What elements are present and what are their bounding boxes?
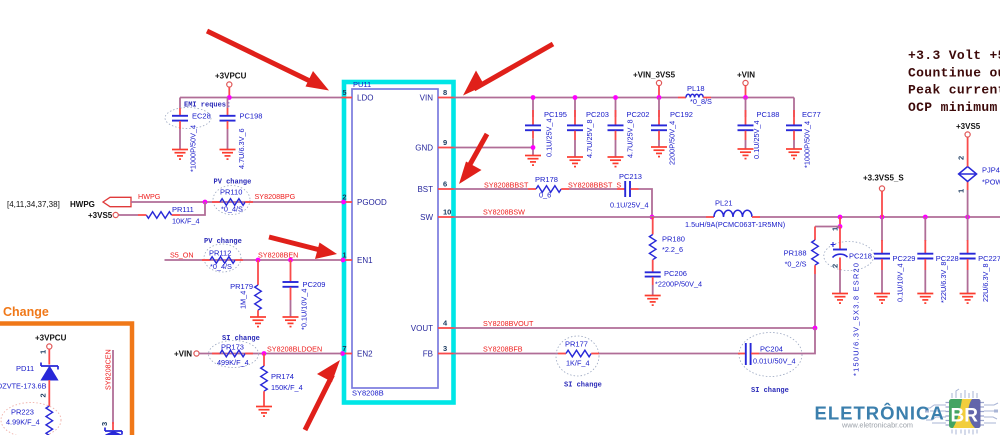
svg-text:2: 2 <box>957 156 966 160</box>
SECTION: texts <box>908 48 1000 115</box>
pin 7 EN2 stub <box>342 353 353 355</box>
capacitor PC229 <box>874 217 890 294</box>
svg-text:PC188: PC188 <box>757 110 780 119</box>
node PC202 bus junction <box>613 95 618 100</box>
node PC188 bus junction <box>743 95 748 100</box>
pin 10 SW stub <box>438 216 454 218</box>
svg-text:SY8208BFB: SY8208BFB <box>483 345 523 354</box>
svg-text:4.7U/25V_8: 4.7U/25V_8 <box>626 119 635 158</box>
capacitor PC209 <box>283 260 299 317</box>
svg-text:*1000P/50V_4: *1000P/50V_4 <box>803 121 812 168</box>
pin 2 PGOOD stub <box>342 201 353 203</box>
ground under PC188 <box>738 149 754 159</box>
wire EC28 riser <box>179 98 181 109</box>
SECTION: topcaps <box>454 71 821 169</box>
SECTION: arrows <box>207 31 553 430</box>
ground under PC218 <box>832 294 848 304</box>
resistor PR112 <box>202 257 243 264</box>
capacitor PC203 <box>567 98 583 158</box>
svg-text:10: 10 <box>443 208 451 217</box>
svg-text:www.eletronicabr.com: www.eletronicabr.com <box>841 421 913 430</box>
svg-text:3: 3 <box>100 422 109 426</box>
svg-text:*2.2_6: *2.2_6 <box>662 245 683 254</box>
annotation arrow 5 to pin 7 <box>305 360 340 430</box>
svg-text:PR173: PR173 <box>221 343 244 352</box>
svg-text:EN1: EN1 <box>357 256 373 265</box>
change ellipse around PR223 <box>1 403 61 435</box>
svg-text:1: 1 <box>831 227 840 231</box>
inductor PL18 <box>678 94 711 97</box>
svg-text:1: 1 <box>39 350 48 354</box>
svg-text:FB: FB <box>423 350 433 359</box>
power +3VS5 circle <box>113 212 118 217</box>
annotation arrow 3 to pin 6 <box>459 134 487 184</box>
svg-text:*2200P/50V_4: *2200P/50V_4 <box>655 280 702 289</box>
svg-text:0_6: 0_6 <box>539 191 551 200</box>
svg-text:PR178: PR178 <box>535 175 558 184</box>
svg-text:4.99K/F_4: 4.99K/F_4 <box>6 418 40 427</box>
pin 9 GND stub <box>438 147 454 149</box>
power +3.3VS5_S lead <box>881 191 883 217</box>
capacitor PC204 (series) <box>738 343 759 365</box>
svg-text:*150U/6.3V_5X3.8 ESR20: *150U/6.3V_5X3.8 ESR20 <box>852 263 861 376</box>
svg-text:SY8208BLDOEN: SY8208BLDOEN <box>267 345 322 354</box>
svg-text:PR112: PR112 <box>209 249 231 258</box>
svg-text:*0.1U/10V_4: *0.1U/10V_4 <box>300 289 309 330</box>
wire PJP4 riser <box>967 190 969 217</box>
capacitor EC28 <box>172 108 188 150</box>
svg-text:PC209: PC209 <box>303 280 326 289</box>
node output bus junction 1 <box>838 215 843 220</box>
ground under EC77 <box>786 149 802 159</box>
svg-text:EMI request: EMI request <box>184 102 230 110</box>
capacitor PC228 <box>917 217 933 294</box>
svg-text:6: 6 <box>443 180 447 189</box>
svg-text:LDO: LDO <box>357 94 373 103</box>
svg-text:SI change: SI change <box>564 382 602 390</box>
svg-text:0.1U/10V_4: 0.1U/10V_4 <box>896 263 905 302</box>
svg-text:PR177: PR177 <box>565 340 588 349</box>
node output bus junction 3 <box>923 215 928 220</box>
svg-text:BR: BR <box>951 406 979 427</box>
wire PC198 riser <box>227 98 229 109</box>
svg-text:PR110: PR110 <box>220 188 242 197</box>
svg-text:PR223: PR223 <box>11 408 34 417</box>
svg-text:+3VPCU: +3VPCU <box>35 334 67 343</box>
svg-text:SY8208B: SY8208B <box>352 389 384 398</box>
svg-text:PC227: PC227 <box>978 254 1000 263</box>
highlight box (cyan) around PU11 <box>344 82 454 403</box>
ground under PC198 <box>220 150 236 160</box>
svg-text:PL21: PL21 <box>715 199 733 208</box>
diode PD11 (zener) <box>41 363 58 407</box>
svg-text:PR180: PR180 <box>662 235 685 244</box>
svg-text:*0_8/S: *0_8/S <box>690 97 712 106</box>
node PC218 jog junction <box>838 224 843 229</box>
svg-text:OCP minimum 1: OCP minimum 1 <box>908 100 1000 115</box>
pin 5 LDO stub <box>342 97 353 99</box>
svg-text:*0_4/S: *0_4/S <box>210 262 232 271</box>
annotation arrow 1 to pin 5 <box>207 31 329 91</box>
wire PGOOD net <box>131 201 342 203</box>
power +3VPCU lead <box>228 87 230 97</box>
node pin7 junction <box>340 351 345 356</box>
svg-text:SY8208BEN: SY8208BEN <box>258 251 298 260</box>
wire EN2 net <box>199 353 341 355</box>
node LDO/+3VPCU junction <box>227 95 232 100</box>
svg-text:[4,11,34,37,38]: [4,11,34,37,38] <box>7 200 60 209</box>
node pin1 junction <box>341 258 346 263</box>
change ellipse around PC204 <box>739 333 802 377</box>
svg-text:2: 2 <box>831 264 840 268</box>
svg-text:0.01U/50V_4: 0.01U/50V_4 <box>753 357 796 366</box>
change ellipse around EC28 <box>165 108 211 129</box>
svg-text:PR188: PR188 <box>784 249 807 258</box>
svg-text:+3VS5: +3VS5 <box>88 211 113 220</box>
svg-text:*POWER: *POWER <box>982 178 1000 187</box>
node PC192 bus junction <box>657 95 662 100</box>
wire output bus <box>760 216 1000 218</box>
power +3.3VS5_S circle <box>879 186 884 191</box>
svg-text:PC203: PC203 <box>586 110 609 119</box>
svg-text:PV change: PV change <box>204 238 242 246</box>
resistor PR178 <box>528 186 569 193</box>
jumper PJP4 <box>959 137 977 190</box>
svg-text:150K/F_4: 150K/F_4 <box>271 383 303 392</box>
svg-text:SI change: SI change <box>751 387 789 395</box>
node VOUT junction <box>813 326 818 331</box>
svg-text:0.1U/25V_4: 0.1U/25V_4 <box>752 120 761 159</box>
svg-text:PR111: PR111 <box>172 205 194 214</box>
change region orange box <box>0 324 132 435</box>
node output bus junction 2 <box>880 215 885 220</box>
svg-text:1M_4: 1M_4 <box>239 291 248 309</box>
svg-text:*22U/6.3V_8: *22U/6.3V_8 <box>939 262 948 303</box>
diode bottom partial <box>105 422 122 435</box>
svg-text:SY8208BBST: SY8208BBST <box>484 181 529 190</box>
resistor PR110 <box>212 199 253 206</box>
SECTION: bstsw <box>454 172 1000 305</box>
svg-text:1.5uH/9A(PCMC063T-1R5MN): 1.5uH/9A(PCMC063T-1R5MN) <box>685 220 785 229</box>
SECTION: ic <box>340 80 453 403</box>
wire LDO net horizontal <box>180 97 342 99</box>
power +VIN lead <box>745 86 747 98</box>
svg-text:+VIN: +VIN <box>737 71 755 80</box>
svg-text:4.7U/6.3V_6: 4.7U/6.3V_6 <box>237 128 246 169</box>
svg-text:PC213: PC213 <box>619 172 642 181</box>
svg-text:DZVTE-173.6B: DZVTE-173.6B <box>0 382 47 391</box>
SECTION: logo <box>815 389 999 435</box>
svg-text:SY8208BVOUT: SY8208BVOUT <box>483 319 534 328</box>
svg-text:PC204: PC204 <box>760 345 783 354</box>
svg-text:PD11: PD11 <box>16 364 34 373</box>
watermark chip square <box>949 399 981 428</box>
svg-text:VIN: VIN <box>420 94 434 103</box>
ground under PC195 <box>525 156 541 166</box>
capacitor PC202 <box>608 98 624 158</box>
power +3VS5 circle right <box>965 132 970 137</box>
svg-text:499K/F_4: 499K/F_4 <box>217 358 249 367</box>
resistor PR111 <box>118 212 180 219</box>
power +VIN circle <box>743 80 748 85</box>
capacitor PC206 <box>645 272 661 295</box>
svg-text:3: 3 <box>443 344 447 353</box>
svg-text:9: 9 <box>443 138 447 147</box>
ground under PC206 <box>645 296 661 306</box>
svg-text:Countinue out: Countinue out <box>908 65 1000 80</box>
svg-text:+3VS5: +3VS5 <box>956 122 981 131</box>
wire SW net <box>454 216 707 218</box>
ground under PC203 <box>567 157 583 167</box>
wire bus to PC218 jog <box>839 217 841 227</box>
svg-text:*0_4/S: *0_4/S <box>221 205 243 214</box>
wire VOUT net <box>454 327 816 329</box>
resistor PR179 <box>255 260 262 317</box>
inductor PL21 <box>706 210 760 217</box>
node PC195 bus junction <box>531 95 536 100</box>
svg-text:PC218: PC218 <box>849 252 872 261</box>
svg-text:8: 8 <box>443 88 447 97</box>
change ellipse around PR173 <box>209 341 259 368</box>
svg-text:0.1U/25V_4: 0.1U/25V_4 <box>610 201 649 210</box>
SECTION: output <box>784 122 1000 376</box>
svg-text:BST: BST <box>417 185 433 194</box>
svg-text:2: 2 <box>39 393 48 397</box>
capacitor PC213 (series) <box>617 181 639 197</box>
ground under PC209 <box>283 317 299 327</box>
wire jog to PR188 <box>815 226 840 228</box>
pin 4 VOUT stub <box>438 327 454 329</box>
pin 3 FB stub <box>438 353 454 355</box>
resistor PR223 <box>46 406 53 435</box>
resistor PR173 <box>212 350 253 357</box>
svg-text:+3.3VS5_S: +3.3VS5_S <box>863 174 904 183</box>
svg-text:SY8208BPG: SY8208BPG <box>255 192 296 201</box>
svg-text:0.1U/25V_4: 0.1U/25V_4 <box>545 118 554 157</box>
capacitor PC188 <box>738 98 754 150</box>
watermark circuit traces left <box>925 405 946 423</box>
svg-text:*1000P/50V_4: *1000P/50V_4 <box>189 125 198 172</box>
svg-text:+VIN_3VS5: +VIN_3VS5 <box>633 71 676 80</box>
wire VIN bus right of PL18 <box>711 97 794 99</box>
PC218 plus mark <box>831 242 836 247</box>
ground under PR174 <box>256 407 272 417</box>
watermark circuit traces right <box>984 403 998 423</box>
capacitor PC195 <box>525 98 541 156</box>
watermark chip pins <box>946 403 985 426</box>
node BST cap to SW junction <box>650 215 655 220</box>
watermark circuit traces top <box>952 389 977 398</box>
power +3VPCU circle <box>227 82 232 87</box>
svg-text:VOUT: VOUT <box>411 324 433 333</box>
watermark circuit traces bottom <box>952 430 977 435</box>
annotation arrow 4 to pin 1 <box>269 237 337 259</box>
svg-text:10K/F_4: 10K/F_4 <box>172 217 200 226</box>
svg-text:+3.3 Volt +5V: +3.3 Volt +5V <box>908 48 1000 63</box>
svg-text:+3VPCU: +3VPCU <box>215 72 247 81</box>
wire GND pin to PC195 <box>454 147 534 149</box>
op-amp U1 body: regulator PU11 SY8208B <box>352 89 438 388</box>
svg-text:PC229: PC229 <box>893 254 916 263</box>
node PC203 bus junction <box>573 95 578 100</box>
SECTION: leftrows <box>7 179 342 417</box>
svg-text:PJP4: PJP4 <box>982 166 1000 175</box>
svg-text:5: 5 <box>342 88 346 97</box>
SECTION: topleft <box>165 72 342 173</box>
capacitor PC198 <box>220 108 236 150</box>
svg-text:2200P/50V_4: 2200P/50V_4 <box>668 121 677 165</box>
svg-text:PC195: PC195 <box>544 110 567 119</box>
wire VIN bus left of PL18 <box>454 97 679 99</box>
change ellipse around PR112 <box>204 244 241 272</box>
wire PC204 up to VOUT <box>759 328 815 354</box>
svg-text:PR174: PR174 <box>271 372 294 381</box>
svg-text:PC192: PC192 <box>670 110 693 119</box>
ground under PC192 <box>651 147 667 157</box>
power +3VPCU circle in box <box>47 344 52 349</box>
svg-text:SW: SW <box>420 213 433 222</box>
change ellipse around PR177 <box>556 336 599 376</box>
ground under PC229 <box>874 294 890 304</box>
wire BST_S <box>569 188 617 190</box>
off-page connector HWPG <box>103 197 131 206</box>
node EN1/PC209 junction <box>288 258 293 263</box>
capacitor PC192 <box>651 98 667 148</box>
node EN2/PR174 junction <box>262 351 267 356</box>
wire FB to PC204 <box>599 353 738 355</box>
svg-text:1K/F_4: 1K/F_4 <box>566 359 590 368</box>
capacitor EC77 <box>786 98 802 150</box>
SECTION: fbrow <box>454 319 818 395</box>
wire SY8208CEN vertical <box>112 350 114 424</box>
ground under PR179 <box>250 317 266 327</box>
ground under PC202 <box>608 157 624 167</box>
resistor PR174 <box>261 354 268 407</box>
node pin2 junction <box>341 200 346 205</box>
svg-text:HWPG: HWPG <box>138 192 161 201</box>
pin 8 VIN stub <box>438 97 454 99</box>
capacitor PC227 <box>960 217 976 294</box>
pin 6 BST stub <box>438 188 454 190</box>
svg-text:PC198: PC198 <box>240 112 263 121</box>
power +VIN_3VS5 lead <box>658 86 660 98</box>
resistor PR188 <box>812 227 819 329</box>
node output bus junction 4 <box>965 215 970 220</box>
svg-text:+VIN: +VIN <box>174 350 192 359</box>
svg-text:PC202: PC202 <box>627 110 650 119</box>
wire PD11 top lead <box>48 349 50 364</box>
capacitor PC218 (polarized) <box>833 227 848 294</box>
svg-text:SY8208BSW: SY8208BSW <box>483 208 525 217</box>
ground under EC28 <box>172 150 188 160</box>
svg-text:4.7U/25V_8: 4.7U/25V_8 <box>585 119 594 158</box>
svg-text:PU11: PU11 <box>353 80 371 89</box>
node GND junction at PC195 <box>531 145 536 150</box>
svg-text:PC206: PC206 <box>664 269 687 278</box>
svg-text:PR179: PR179 <box>230 282 253 291</box>
svg-text:EN2: EN2 <box>357 350 373 359</box>
svg-text:PGOOD: PGOOD <box>357 198 387 207</box>
svg-text:1: 1 <box>957 189 966 193</box>
ground under PC228 <box>917 294 933 304</box>
svg-text:22U/6.3V_8: 22U/6.3V_8 <box>981 263 990 302</box>
svg-text:SY8208CEN: SY8208CEN <box>104 349 113 390</box>
wire PC213 to SW <box>639 189 653 217</box>
wire BST net <box>454 188 529 190</box>
resistor PR180 <box>649 217 656 272</box>
svg-text:GND: GND <box>415 144 433 153</box>
resistor PR177 <box>558 350 599 357</box>
power +VIN circle left <box>194 351 199 356</box>
svg-text:PL18: PL18 <box>687 84 705 93</box>
node EN1/PR179 junction <box>256 258 261 263</box>
wire EN1 net <box>165 259 342 261</box>
node PGOOD branch junction <box>203 200 208 205</box>
SECTION: orangebox <box>0 305 132 435</box>
svg-text:EC28: EC28 <box>192 112 211 121</box>
ground under PC227 <box>960 294 976 304</box>
svg-text:HWPG: HWPG <box>70 200 95 209</box>
annotation arrow 2 to pin 8 <box>463 44 553 96</box>
change ellipse around PR110 <box>213 186 250 215</box>
svg-text:Peak current 1: Peak current 1 <box>908 83 1000 98</box>
wire FB net <box>454 353 559 355</box>
svg-text:EC77: EC77 <box>802 110 821 119</box>
change ellipse around PC218 <box>824 242 874 271</box>
pin 1 EN1 stub <box>342 259 353 261</box>
svg-text:*0_2/S: *0_2/S <box>785 260 807 269</box>
wire branch down to PR111 <box>180 202 205 215</box>
power +VIN_3VS5 circle <box>656 80 661 85</box>
svg-text:Change: Change <box>3 305 49 319</box>
svg-text:S5_ON: S5_ON <box>170 251 194 260</box>
